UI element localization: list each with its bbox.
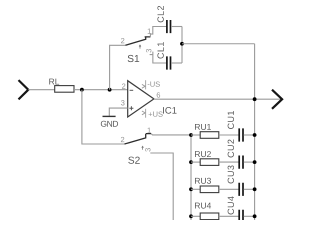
capacitor CL1 (167, 56, 171, 69)
junction node B (108, 88, 112, 92)
wire S2 pin3 down to bottom edge (150, 153, 173, 220)
wire CL1 right to feedback bus (171, 62, 182, 64)
pin label 6 of IC1 (157, 92, 160, 97)
pin label 2 of S1 (121, 38, 124, 43)
pin label 3 of S1 (146, 49, 151, 53)
ground bar (103, 115, 116, 117)
pin label 1 of S1 (148, 29, 151, 34)
switch S1 actuation arrow (139, 45, 141, 49)
label S2 (128, 157, 134, 164)
wire CU4 to right bus (244, 215, 255, 217)
pin label 3 of IC1 (121, 100, 125, 105)
label +US (149, 112, 153, 116)
resistor RU2 (200, 159, 219, 166)
op-amp IC1 triangle (128, 81, 154, 117)
wire CU3 to right bus (244, 188, 255, 190)
junction left bus row 1 (189, 133, 193, 137)
wire input to RL (28, 89, 54, 91)
left ladder bus wire (190, 135, 192, 220)
resistor RU4 (200, 213, 219, 220)
wire RU2 to CU2 (219, 161, 239, 163)
junction left bus row 2 (189, 160, 193, 164)
junction right bus row 4 (253, 214, 257, 218)
switch S2 actuation arrow (142, 146, 144, 150)
junction node A (80, 88, 84, 92)
op-amp inverting input minus sign (130, 89, 134, 91)
wire feedback to output bus (182, 43, 255, 45)
op-amp output wire pin 6 (154, 98, 281, 100)
label RU1 (195, 124, 200, 130)
pin label 1 of S2 (148, 128, 151, 133)
label CU2 (228, 152, 234, 158)
capacitor CU4 (239, 210, 243, 223)
label CU3 (228, 178, 234, 184)
input connector arrow (19, 80, 29, 99)
wire row 1 bus to RU1 (191, 134, 200, 136)
wire row 3 bus to RU3 (191, 188, 200, 190)
wire RL to op-amp pin 2 (74, 89, 128, 91)
wire S1 pin1 to CL2 (150, 27, 166, 37)
wire RU3 to CU3 (219, 188, 239, 190)
label RU2 (195, 151, 200, 157)
wire S2 pin1 to ladder (151, 134, 191, 135)
junction right bus row 2 (253, 160, 257, 164)
wire pin 3 to ground (109, 108, 127, 116)
switch S1 lever (125, 37, 150, 45)
wire node B up to S1 pole (110, 45, 126, 89)
label RU4 (195, 203, 200, 209)
wire node A down to S2 pole (82, 90, 125, 144)
label IC1 (162, 107, 165, 114)
capacitor CU3 (239, 183, 243, 196)
wire CU2 to right bus (244, 161, 255, 163)
junction feedback bus (180, 42, 184, 46)
label CL2 (157, 17, 163, 23)
label CL1 (157, 53, 163, 59)
capacitor CU2 (239, 156, 243, 169)
wire RU4 to CU4 (219, 215, 239, 217)
junction left bus row 4 (189, 214, 193, 218)
label RU3 (195, 178, 200, 184)
op-amp power pin arrow top (142, 84, 145, 88)
junction right bus row 1 (253, 133, 257, 137)
pin label 3 of S2 (145, 148, 150, 152)
feedback bus vertical wire (181, 27, 183, 64)
wire RU1 to CU1 (219, 134, 239, 136)
op-amp non-inverting input plus sign (129, 106, 133, 110)
junction left bus row 3 (189, 187, 193, 191)
wire row 4 bus to RU4 (191, 215, 200, 217)
wire CL2 right to feedback bus (171, 26, 182, 28)
junction right bus row 3 (253, 187, 257, 191)
wire row 2 bus to RU2 (191, 161, 200, 163)
resistor RL (55, 86, 74, 93)
pin label 2 of S2 (121, 137, 124, 142)
output connector arrow (272, 90, 282, 109)
op-amp power pin arrow bottom (142, 111, 145, 115)
resistor RU1 (200, 132, 219, 139)
label CU1 (228, 123, 234, 129)
label GND (101, 121, 107, 127)
label S1 (128, 55, 134, 62)
capacitor CL2 (167, 20, 171, 33)
switch S2 lever (125, 134, 152, 144)
pin label 2 of IC1 (122, 83, 125, 88)
wire CU1 to right bus (244, 134, 255, 136)
label RL (49, 79, 54, 85)
op-amp power pin stub -US (145, 80, 147, 89)
wire S1 pin3 contact to CL1 (150, 52, 167, 63)
resistor RU3 (200, 186, 219, 193)
label CU4 (228, 209, 234, 215)
output bus vertical wire (254, 44, 256, 220)
op-amp power pin stub +US (145, 109, 147, 118)
capacitor CU1 (239, 128, 243, 141)
junction output node (253, 97, 257, 101)
label -US (148, 83, 150, 86)
